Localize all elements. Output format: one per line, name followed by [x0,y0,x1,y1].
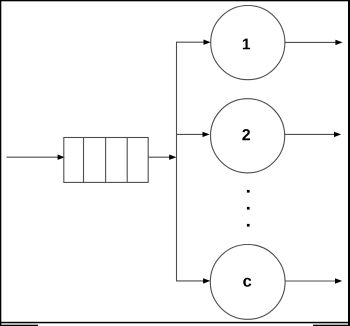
arrowhead departure c [335,278,342,283]
frame bottom edge line left [0,325,38,326]
queue slot divider 3 [126,138,128,183]
label 1 [243,39,250,50]
queue buffer (4-slot rectangle) [64,138,148,183]
queue slot divider 2 [105,138,107,183]
wire: branch to server c [176,280,204,282]
wire: branch to server 2 [176,133,203,135]
frame right border [348,0,350,326]
wire: queue output line [148,156,170,158]
wire: input arrival line [6,156,58,158]
wire: vertical branch line [176,42,178,281]
frame left border [0,0,1,326]
wire: server c departure [285,280,336,282]
frame bottom rule [0,322,350,324]
queue slot divider 1 [83,138,85,183]
arrowhead into branch node [169,155,176,160]
wire: server 2 departure [285,133,335,135]
arrowhead departure 2 [334,132,341,137]
frame top border [0,0,350,1]
arrowhead into server 1 [204,40,211,45]
ellipsis dot 2 [247,207,250,210]
server 2 circle [211,99,285,173]
server c circle [210,245,285,320]
ellipsis dot 3 [247,224,250,227]
label c [243,278,251,287]
arrowhead into server 2 [203,132,210,137]
wire: server 1 departure [285,41,337,43]
arrowhead departure 1 [335,40,342,45]
arrowhead into queue [58,155,65,160]
ellipsis dot 1 [247,190,250,193]
frame bottom edge line right [313,325,350,326]
arrowhead into server c [203,278,210,283]
server 1 circle [211,6,285,80]
label 2 [242,129,250,140]
wire: branch to server 1 [176,41,204,43]
